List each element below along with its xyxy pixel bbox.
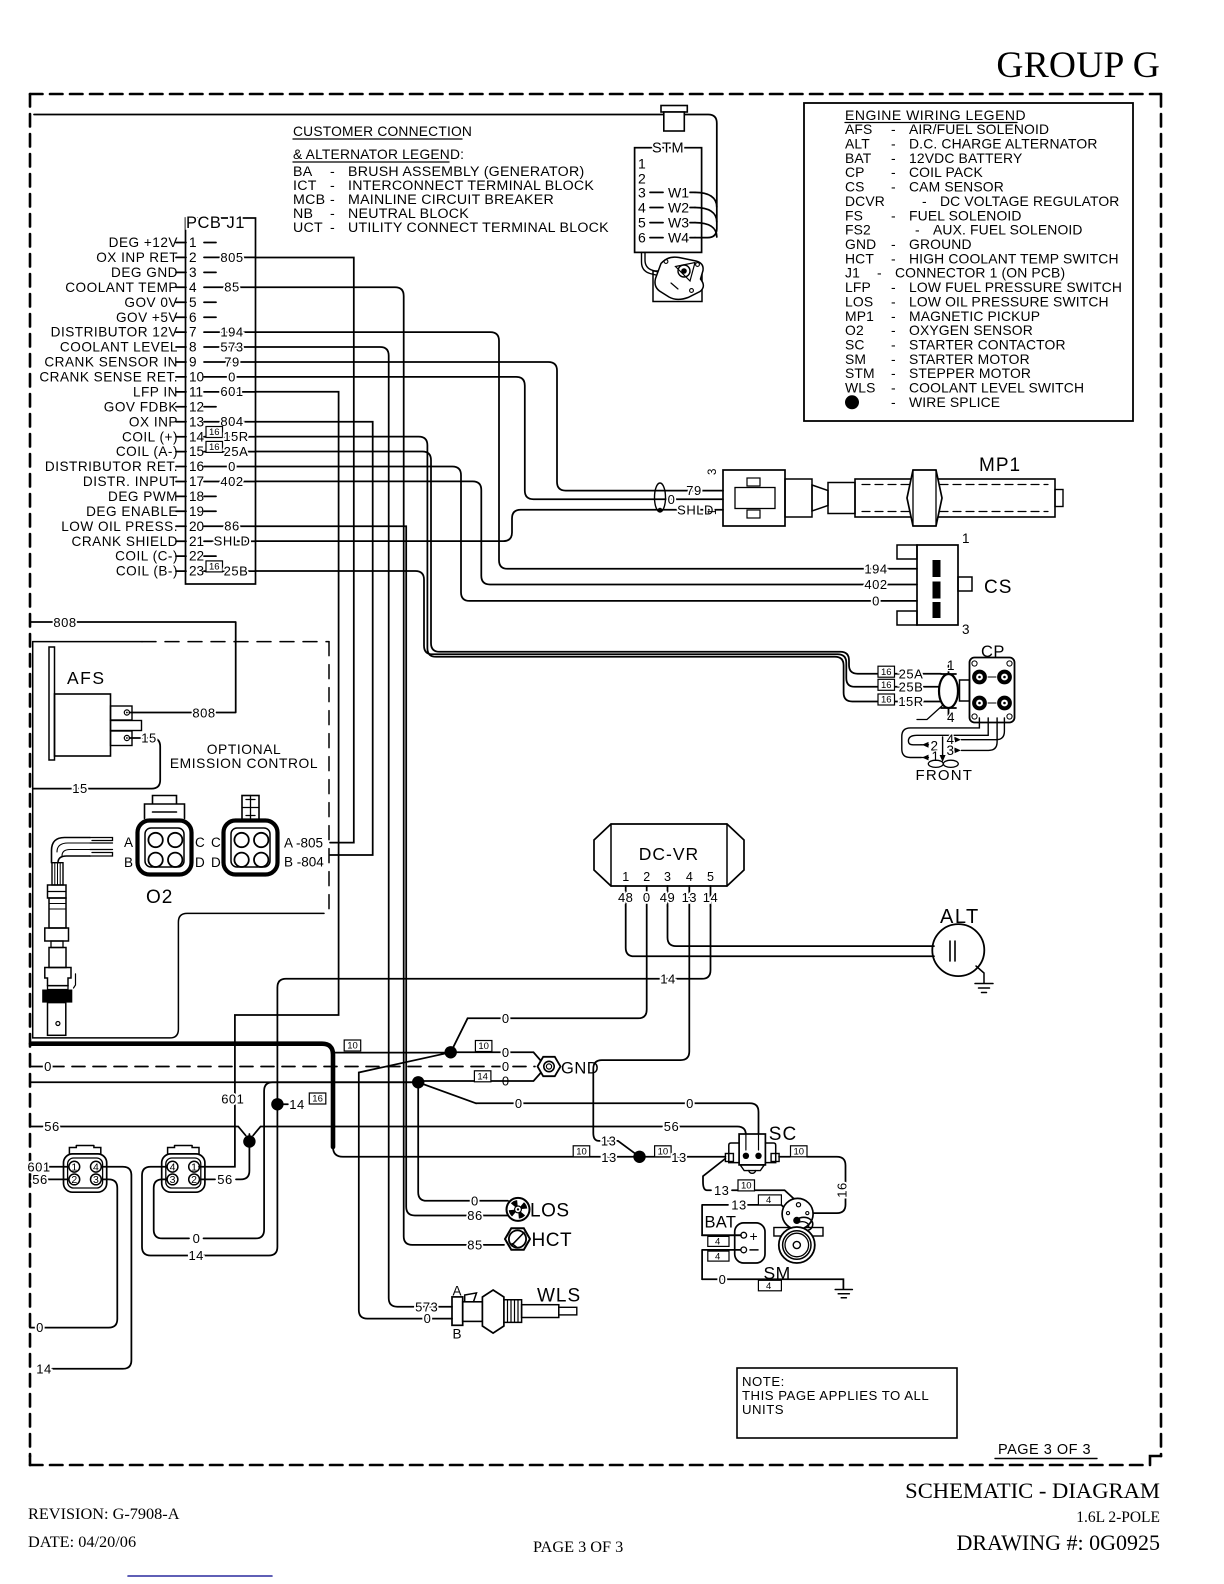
wire 13 DC-VR pin4 down <box>593 906 689 1141</box>
gauge box 16 <box>309 1093 326 1104</box>
svg-text:WLS: WLS <box>845 380 876 396</box>
switch HCT <box>505 1228 530 1250</box>
svg-text:56: 56 <box>217 1172 232 1187</box>
svg-text:3: 3 <box>947 743 955 758</box>
svg-text:4: 4 <box>766 1195 771 1206</box>
footer blue rule <box>128 1575 272 1577</box>
svg-text:49: 49 <box>660 890 675 905</box>
svg-text:+: + <box>750 1228 758 1244</box>
svg-text:804: 804 <box>220 414 243 429</box>
wire 25B pin23 to CP <box>256 571 942 687</box>
svg-text:79: 79 <box>224 354 239 369</box>
svg-text:23: 23 <box>189 564 204 579</box>
svg-text:808: 808 <box>53 615 76 630</box>
svg-text:5: 5 <box>638 215 646 231</box>
wire 0 pin16 to CS <box>256 467 918 601</box>
svg-text:16: 16 <box>881 695 892 706</box>
svg-text:0: 0 <box>36 1320 44 1335</box>
svg-text:C: C <box>195 835 205 850</box>
svg-text:4: 4 <box>638 200 646 216</box>
O2 left latch <box>145 796 185 819</box>
O2 sensor fork terminals <box>90 838 113 857</box>
gauge box 4 minus wire <box>702 1250 741 1279</box>
svg-text:CRANK SENSE RET.: CRANK SENSE RET. <box>39 370 178 385</box>
wire splice lower <box>30 1081 418 1083</box>
svg-text:UTILITY CONNECT TERMINAL BLOCK: UTILITY CONNECT TERMINAL BLOCK <box>348 220 609 236</box>
svg-text:13: 13 <box>731 1198 746 1213</box>
svg-text:85: 85 <box>224 280 239 295</box>
svg-text:4: 4 <box>686 870 693 884</box>
svg-text:20: 20 <box>189 519 205 534</box>
svg-text:CRANK SENSOR IN: CRANK SENSOR IN <box>44 355 178 370</box>
MP1 connector <box>723 470 785 526</box>
svg-text:SHLD: SHLD <box>214 534 251 549</box>
note box <box>737 1368 957 1438</box>
svg-text:1: 1 <box>622 870 629 884</box>
svg-text:W2: W2 <box>668 200 689 216</box>
svg-text:W3: W3 <box>668 215 689 231</box>
svg-text:UNITS: UNITS <box>742 1402 784 1417</box>
svg-text:14: 14 <box>36 1361 51 1376</box>
stepper motor connector STM <box>635 148 702 253</box>
svg-text:1: 1 <box>707 509 719 515</box>
svg-text:15: 15 <box>141 731 156 746</box>
svg-text:-: - <box>891 394 896 410</box>
svg-text:DISTR. INPUT: DISTR. INPUT <box>83 474 178 489</box>
O2 right latch <box>242 796 259 820</box>
CP oval connector <box>939 674 958 708</box>
wire 85 pin4 to HCT <box>256 287 505 1245</box>
svg-text:B: B <box>453 1327 462 1342</box>
svg-text:CS: CS <box>984 577 1012 598</box>
svg-text:COOLANT LEVEL: COOLANT LEVEL <box>60 340 178 355</box>
svg-text:PCB J1: PCB J1 <box>186 214 245 232</box>
svg-text:-: - <box>891 207 896 223</box>
svg-text:601: 601 <box>221 1092 244 1107</box>
CP body <box>970 658 1015 723</box>
svg-text:14: 14 <box>660 971 675 986</box>
svg-text:194: 194 <box>220 325 243 340</box>
svg-text:REVISION: G-7908-A: REVISION: G-7908-A <box>28 1504 180 1523</box>
STM cable to motor <box>642 252 657 275</box>
wire 0 right connector loop <box>154 1179 189 1238</box>
svg-text:56: 56 <box>664 1119 679 1134</box>
wire 0 splice to WLS <box>359 1052 452 1318</box>
wire splice 13 <box>603 1141 640 1157</box>
svg-text:12: 12 <box>189 399 204 414</box>
svg-text:4: 4 <box>715 1237 720 1248</box>
wire supply to STM <box>34 115 717 238</box>
stepper motor drawing <box>653 271 702 302</box>
svg-text:3: 3 <box>664 870 671 884</box>
svg-text:13: 13 <box>682 890 697 905</box>
svg-text:AFS: AFS <box>67 668 106 688</box>
svg-text:6: 6 <box>189 310 197 325</box>
svg-text:56: 56 <box>44 1119 59 1134</box>
svg-text:0: 0 <box>228 459 236 474</box>
wire 805 pin2 to O2 connector A <box>256 258 354 843</box>
legend box ENGINE WIRING LEGEND <box>804 103 1133 421</box>
wire 16 SC to BA <box>779 1156 790 1158</box>
svg-text:2: 2 <box>191 1174 197 1186</box>
regulator DC-VR <box>594 824 744 886</box>
svg-text:THIS PAGE APPLIES TO ALL: THIS PAGE APPLIES TO ALL <box>742 1388 929 1403</box>
svg-text:3: 3 <box>170 1174 176 1186</box>
svg-text:SC: SC <box>769 1124 797 1145</box>
svg-text:COIL (C-): COIL (C-) <box>115 549 178 564</box>
svg-text:B -804: B -804 <box>284 855 324 870</box>
svg-text:56: 56 <box>32 1172 47 1187</box>
svg-text:WIRE SPLICE: WIRE SPLICE <box>909 394 1000 410</box>
svg-text:DC-VR: DC-VR <box>639 844 699 864</box>
svg-text:0: 0 <box>515 1096 523 1111</box>
svg-text:2: 2 <box>189 250 197 265</box>
wire 0 DC-VR pin2 down <box>468 906 647 1018</box>
CP front center arrow <box>942 737 944 756</box>
svg-text:0: 0 <box>668 492 676 507</box>
CP front wire 4 <box>962 718 1005 740</box>
wire 601 stub left <box>30 1166 68 1168</box>
svg-text:15: 15 <box>189 444 204 459</box>
svg-text:13: 13 <box>714 1183 729 1198</box>
svg-text:14: 14 <box>289 1097 304 1112</box>
ground symbol SM <box>835 1290 852 1298</box>
svg-text:10: 10 <box>794 1146 805 1157</box>
svg-text:B: B <box>124 855 133 870</box>
wire 573 pin8 to WLS A <box>256 347 453 1307</box>
svg-text:DEG GND: DEG GND <box>111 265 178 280</box>
ALT ground <box>976 966 984 983</box>
svg-text:16: 16 <box>881 667 892 678</box>
wire 13 gauge run to SC <box>333 1147 725 1157</box>
CP leader line <box>917 705 943 720</box>
wire 0 splice to SC <box>476 1103 759 1153</box>
svg-text:8: 8 <box>189 340 197 355</box>
wire 0 BAT minus to ground <box>702 1279 843 1288</box>
legend row wire splice <box>845 395 859 409</box>
svg-text:CRANK SHIELD: CRANK SHIELD <box>72 534 178 549</box>
wire 804 pin13 to O2 connector B <box>256 422 373 855</box>
svg-text:0: 0 <box>643 890 651 905</box>
CP towers <box>972 670 987 685</box>
svg-text:-: - <box>891 179 896 195</box>
gauge box 10 <box>573 1146 590 1157</box>
connector block on supply wire <box>661 106 687 113</box>
svg-text:DISTRIBUTOR 12V: DISTRIBUTOR 12V <box>51 325 178 340</box>
O2 connector right <box>224 821 278 875</box>
gauge box 10 <box>738 1180 755 1191</box>
svg-text:0: 0 <box>872 594 880 609</box>
gauge box 16 at CP 25A <box>878 666 895 677</box>
svg-text:16: 16 <box>312 1094 323 1105</box>
svg-text:1: 1 <box>191 1161 197 1173</box>
svg-text:UCT: UCT <box>293 220 323 236</box>
svg-text:COIL (A-): COIL (A-) <box>116 444 178 459</box>
svg-text:MP1: MP1 <box>979 455 1021 476</box>
svg-text:79: 79 <box>686 483 701 498</box>
svg-text:3: 3 <box>962 622 970 637</box>
svg-text:1: 1 <box>932 749 940 764</box>
svg-text:25B: 25B <box>224 564 249 579</box>
svg-text:13: 13 <box>601 1134 616 1149</box>
svg-text:16: 16 <box>835 1182 850 1197</box>
svg-text:4: 4 <box>715 1251 720 1262</box>
svg-text:17: 17 <box>189 474 204 489</box>
svg-text:0: 0 <box>471 1193 479 1208</box>
switch WLS <box>452 1297 463 1325</box>
wire 194 pin7 to CS <box>256 332 918 569</box>
wire 49 DC-VR to ALT <box>668 906 935 946</box>
svg-text:14: 14 <box>477 1071 488 1082</box>
svg-text:22: 22 <box>189 549 204 564</box>
starter motor SM <box>779 1227 815 1263</box>
svg-text:A -805: A -805 <box>284 836 323 851</box>
svg-text:10: 10 <box>658 1146 669 1157</box>
gauge box 10 near heavy wire <box>344 1040 361 1051</box>
wire 56 stub left <box>30 1178 68 1180</box>
wire 15R pin14 to CP <box>256 437 941 702</box>
svg-text:0: 0 <box>228 369 236 384</box>
svg-text:PAGE 3 OF 3: PAGE 3 OF 3 <box>533 1537 623 1556</box>
svg-text:GOV 0V: GOV 0V <box>124 295 178 310</box>
svg-text:COIL (B-): COIL (B-) <box>116 564 178 579</box>
svg-text:W4: W4 <box>668 230 689 246</box>
svg-text:15R: 15R <box>223 429 248 444</box>
svg-text:16: 16 <box>189 459 204 474</box>
svg-text:DEG PWM: DEG PWM <box>108 489 178 504</box>
svg-text:601: 601 <box>220 384 243 399</box>
svg-text:0: 0 <box>502 1011 510 1026</box>
STM winding hooks W1-W3 <box>695 192 717 207</box>
O2 sensor hatched cable <box>52 863 63 885</box>
svg-text:13: 13 <box>671 1150 686 1165</box>
svg-text:O2: O2 <box>146 887 173 908</box>
svg-text:D: D <box>211 855 221 870</box>
svg-text:14: 14 <box>188 1248 203 1263</box>
svg-text:GROUP G: GROUP G <box>996 45 1160 86</box>
svg-text:85: 85 <box>467 1238 482 1253</box>
wire 15 AFS <box>33 738 161 789</box>
svg-text:OX INP: OX INP <box>129 414 178 429</box>
svg-text:15: 15 <box>72 781 87 796</box>
solenoid AFS <box>49 647 55 760</box>
svg-text:DATE: 04/20/06: DATE: 04/20/06 <box>28 1532 136 1551</box>
connector engine harness left <box>64 1154 107 1192</box>
svg-text:3: 3 <box>93 1174 99 1186</box>
O2 connector left <box>138 821 192 875</box>
svg-text:1.6L 2-POLE: 1.6L 2-POLE <box>1076 1509 1160 1526</box>
switch LOS <box>507 1198 530 1221</box>
wire 14 DC-VR pin5 down <box>204 906 711 1256</box>
gauge box 16 pin 14 <box>206 427 223 438</box>
svg-text:0: 0 <box>502 1059 510 1074</box>
svg-text:18: 18 <box>189 489 204 504</box>
svg-text:10: 10 <box>478 1041 489 1052</box>
svg-text:10: 10 <box>576 1146 587 1157</box>
svg-text:14: 14 <box>189 429 205 444</box>
svg-text:D: D <box>195 855 205 870</box>
gauge box 16 at CP 25B <box>878 679 895 690</box>
svg-text:4: 4 <box>947 710 955 725</box>
svg-text:STM: STM <box>652 141 684 157</box>
svg-text:FRONT: FRONT <box>916 767 974 784</box>
svg-text:C: C <box>211 835 221 850</box>
sensor CS cam sensor <box>917 545 958 625</box>
optional emission control box <box>33 641 142 643</box>
svg-text:1: 1 <box>71 1161 77 1173</box>
svg-text:808: 808 <box>192 705 215 720</box>
wire 48 DC-VR to ALT <box>626 906 934 956</box>
svg-text:SCHEMATIC - DIAGRAM: SCHEMATIC - DIAGRAM <box>905 1478 1160 1503</box>
wire splice 14 <box>271 1098 283 1110</box>
wire SHLD pin21 to MP1 <box>256 510 724 541</box>
wire 13 to BAT plus <box>702 1205 741 1235</box>
svg-text:ALT: ALT <box>940 906 980 928</box>
svg-text:86: 86 <box>467 1208 482 1223</box>
wire 601 pin11 to connector pin1 <box>199 392 339 1167</box>
wire 79 pin9 to MP1 <box>256 362 724 491</box>
shield oval MP1 <box>655 483 666 512</box>
contactor SC <box>739 1134 765 1165</box>
wire 0 left connector down <box>30 1179 117 1327</box>
brush assembly BA <box>782 1198 813 1229</box>
svg-text:4: 4 <box>189 280 197 295</box>
wire 56 right connector to splice <box>200 1178 215 1180</box>
svg-text:9: 9 <box>189 355 197 370</box>
heavy ground wire 0 <box>31 1044 333 1147</box>
connector PCB J1 <box>186 218 256 584</box>
svg-text:DRAWING #: 0G0925: DRAWING #: 0G0925 <box>956 1530 1160 1555</box>
gauge box 14 <box>474 1071 491 1082</box>
svg-text:-: - <box>330 220 335 236</box>
svg-text:GND: GND <box>561 1060 599 1078</box>
svg-text:COOLANT TEMP: COOLANT TEMP <box>65 280 178 295</box>
svg-text:2: 2 <box>643 870 650 884</box>
wire splice 56 <box>236 1134 249 1179</box>
CP front wires loop 1 <box>902 718 980 758</box>
svg-text:13: 13 <box>601 1150 616 1165</box>
wire 402 pin17 to CS <box>256 481 918 584</box>
svg-text:16: 16 <box>209 442 220 453</box>
svg-text:3: 3 <box>638 184 646 200</box>
svg-text:10: 10 <box>189 370 205 385</box>
MP1 hex nut <box>907 470 942 526</box>
svg-text:194: 194 <box>864 561 887 576</box>
svg-text:0: 0 <box>719 1272 727 1287</box>
svg-text:1: 1 <box>947 658 955 673</box>
svg-text:NOTE:: NOTE: <box>742 1374 785 1389</box>
svg-text:11: 11 <box>189 385 203 400</box>
svg-text:10: 10 <box>347 1041 358 1052</box>
svg-text:10: 10 <box>741 1181 752 1192</box>
svg-text:DEG ENABLE: DEG ENABLE <box>86 504 178 519</box>
svg-text:LOS: LOS <box>530 1201 570 1222</box>
O2 sensor body <box>48 885 67 898</box>
gauge box 16 pin 15 <box>206 441 223 452</box>
svg-text:A: A <box>124 835 133 850</box>
svg-text:& ALTERNATOR LEGEND:: & ALTERNATOR LEGEND: <box>293 147 464 162</box>
svg-text:LOW OIL PRESS.: LOW OIL PRESS. <box>61 519 178 534</box>
svg-text:LFP IN: LFP IN <box>133 385 178 400</box>
svg-text:WLS: WLS <box>537 1286 581 1307</box>
svg-text:573: 573 <box>220 339 243 354</box>
svg-text:86: 86 <box>224 519 239 534</box>
svg-text:PAGE 3 OF 3: PAGE 3 OF 3 <box>998 1442 1091 1458</box>
svg-text:4: 4 <box>93 1161 99 1173</box>
wire splice upper <box>333 1052 451 1054</box>
ground lug GND <box>538 1057 561 1076</box>
O2 sensor probe <box>52 838 91 863</box>
CP front wire 3 <box>962 718 998 750</box>
svg-text:OPTIONAL: OPTIONAL <box>207 742 282 757</box>
svg-text:BAT: BAT <box>705 1214 737 1232</box>
svg-text:15R: 15R <box>898 694 923 709</box>
svg-text:573: 573 <box>415 1299 438 1314</box>
connector engine harness right <box>162 1154 205 1192</box>
CP front arrows <box>921 745 929 758</box>
svg-text:6: 6 <box>638 230 646 246</box>
svg-text:0: 0 <box>44 1059 52 1074</box>
CP front wires loop 2 <box>908 718 988 745</box>
svg-text:HCT: HCT <box>532 1230 573 1251</box>
svg-text:DEG +12V: DEG +12V <box>109 235 178 250</box>
svg-text:W1: W1 <box>668 184 689 200</box>
svg-text:402: 402 <box>220 474 243 489</box>
wire 808 AFS <box>31 622 236 713</box>
CP front propeller symbol <box>928 760 943 767</box>
wire 14 left connector down <box>52 1167 131 1369</box>
svg-text:0: 0 <box>502 1045 510 1060</box>
svg-text:-: - <box>877 265 882 281</box>
svg-text:GOV +5V: GOV +5V <box>116 310 178 325</box>
svg-text:16: 16 <box>209 427 220 438</box>
wire SC to BA 13 <box>703 1159 725 1191</box>
svg-text:0: 0 <box>686 1096 694 1111</box>
gauge box 4 <box>758 1195 781 1205</box>
wire 86 pin20 to LOS <box>256 526 509 1215</box>
mounting bar <box>774 1228 823 1237</box>
svg-text:0: 0 <box>193 1231 201 1246</box>
wire 25A pin15 to CP <box>256 452 942 674</box>
page dashed border <box>30 94 1161 1465</box>
svg-text:1: 1 <box>638 155 646 171</box>
svg-text:GOV FDBK: GOV FDBK <box>104 399 178 414</box>
wire 56 run to SC <box>30 1127 746 1154</box>
svg-text:OX INP RET: OX INP RET <box>96 250 178 265</box>
svg-text:1: 1 <box>189 235 197 250</box>
svg-text:402: 402 <box>864 577 887 592</box>
svg-text:2: 2 <box>71 1174 77 1186</box>
svg-text:CUSTOMER CONNECTION: CUSTOMER CONNECTION <box>293 124 472 139</box>
svg-text:A: A <box>453 1284 462 1299</box>
wire 14 right connector loop <box>142 1167 188 1256</box>
MP1 body <box>785 479 812 517</box>
wire 0 to LOS <box>418 1088 508 1201</box>
svg-text:16: 16 <box>881 680 892 691</box>
svg-text:5: 5 <box>189 295 197 310</box>
svg-text:19: 19 <box>189 504 204 519</box>
svg-text:21: 21 <box>189 534 204 549</box>
svg-text:25A: 25A <box>224 444 249 459</box>
svg-text:14: 14 <box>703 890 718 905</box>
svg-text:4: 4 <box>170 1161 176 1173</box>
svg-text:7: 7 <box>189 325 197 340</box>
svg-text:5: 5 <box>707 870 714 884</box>
svg-text:EMISSION CONTROL: EMISSION CONTROL <box>170 756 318 771</box>
svg-text:COIL (+): COIL (+) <box>122 429 178 444</box>
svg-text:805: 805 <box>220 250 243 265</box>
gauge box 16 pin 23 <box>206 561 223 572</box>
